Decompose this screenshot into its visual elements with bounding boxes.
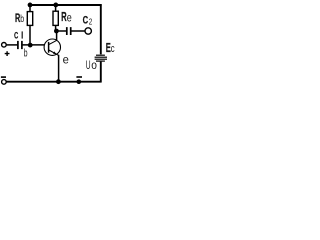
label Uo [86,59,97,73]
svg-text:b: b [24,47,28,59]
label C2 [83,14,93,27]
svg-text:e: e [67,11,72,25]
svg-text:C: C [83,14,89,27]
junction dot: emitter at bottom rail [56,79,61,84]
capacitor C2 [67,27,71,35]
junction dot: bottom rail output side [77,79,82,84]
svg-text:c: c [111,43,115,56]
wire: collector node to C2 [56,30,66,32]
svg-text:C: C [14,30,18,41]
wire: right rail upper (top rail down to battery) [100,4,102,54]
svg-text:e: e [63,53,70,67]
label + (input) [5,51,10,56]
svg-text:o: o [91,59,97,72]
terminal: output [85,28,91,34]
label − (input) [1,76,6,78]
terminal: input − [2,80,7,85]
terminal: input + [2,43,7,48]
transistor VT (NPN) [44,39,60,55]
wire: emitter lead [58,55,60,82]
resistor Re [53,5,58,31]
label Ec [106,42,115,55]
wire: input terminal to C1 [6,44,17,46]
wire: collector lead [56,31,58,41]
node c (junction dot at collector) [54,29,59,34]
label C1 [14,30,23,41]
resistor Rb [27,5,32,45]
wire: right rail lower (battery to bottom rail) [100,62,102,83]
node b (junction dot) [28,43,33,48]
wire: C2 to output terminal [71,30,85,32]
wire: bottom rail [6,81,101,83]
wire: C1 to base node [22,44,44,46]
svg-text:b: b [20,13,24,25]
battery Ec [95,55,107,61]
junction dot on top rail at Re [53,3,58,8]
label Re [61,10,72,25]
wire: top supply rail [30,4,102,6]
junction dot on top rail at Rb [28,3,33,8]
svg-text:U: U [86,59,91,73]
capacitor C1 [18,41,22,49]
svg-text:2: 2 [89,17,93,27]
label − (output) [76,76,82,78]
label Rb [15,12,24,25]
